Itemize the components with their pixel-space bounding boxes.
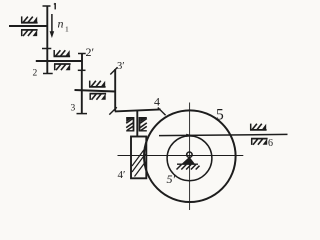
bearing shaft II lower: [54, 64, 71, 70]
bevel gear 3' line: [114, 69, 116, 111]
svg-text:2: 2: [33, 69, 38, 79]
bearing shaft III lower: [90, 94, 107, 100]
gear 4' hatch: [132, 148, 145, 177]
shaft VI: [159, 134, 288, 135]
gear 1 line: [46, 6, 48, 49]
svg-text:5′: 5′: [167, 172, 176, 186]
bevel gear 4 slant tick: [158, 108, 166, 116]
svg-text:6: 6: [268, 138, 273, 149]
bevel gear 4 line: [115, 109, 161, 111]
bearing shaft I upper: [21, 16, 38, 22]
svg-text:2′: 2′: [86, 45, 95, 59]
bearing shaft IV right: [140, 117, 147, 132]
direction arrow on shaft VI: [186, 134, 192, 137]
mesh tick gears 1-2: [42, 48, 51, 50]
shaft II: [36, 60, 82, 62]
shaft I: [9, 25, 47, 27]
bearing shaft I lower: [21, 30, 38, 36]
svg-text:3′: 3′: [117, 61, 125, 72]
shaft III: [75, 90, 116, 92]
horizontal centerline: [118, 155, 244, 157]
bearing shaft IV left: [126, 117, 133, 132]
shaft IV vertical: [136, 111, 138, 138]
bearing shaft VI upper: [250, 124, 267, 130]
svg-text:5: 5: [216, 107, 224, 124]
arrow n1: [50, 14, 55, 38]
gear 4' rectangle: [131, 137, 146, 179]
svg-text:n: n: [58, 17, 64, 31]
gear 1 top tick: [43, 5, 51, 7]
gear 3 bottom tick: [77, 113, 88, 115]
svg-text:3: 3: [71, 104, 76, 114]
bevel gear 3' slant tick: [110, 67, 117, 74]
ground line: [177, 163, 198, 165]
gear 5' inner circle: [167, 136, 212, 181]
wheel 5 big circle: [144, 110, 236, 202]
bevel mesh corner tick: [109, 107, 117, 114]
gear 2 bottom tick: [43, 73, 53, 75]
svg-text:4: 4: [154, 95, 160, 109]
label 1: [54, 3, 55, 9]
gear 2 line: [46, 49, 48, 74]
bearing shaft III upper: [89, 81, 106, 87]
ground hatch: [177, 165, 200, 170]
gear 2' line: [81, 54, 83, 71]
mesh tick gears 2'-3: [78, 69, 86, 71]
bearing shaft VI lower: [251, 139, 268, 145]
pivot circle: [187, 152, 192, 157]
bearing shaft II upper: [54, 50, 71, 56]
gear 3 line: [81, 70, 83, 113]
svg-text:1: 1: [65, 25, 69, 34]
vertical centerline: [189, 103, 191, 211]
svg-text:4′: 4′: [118, 169, 126, 181]
pivot triangle: [182, 157, 196, 164]
gear 2' top tick: [78, 53, 86, 55]
